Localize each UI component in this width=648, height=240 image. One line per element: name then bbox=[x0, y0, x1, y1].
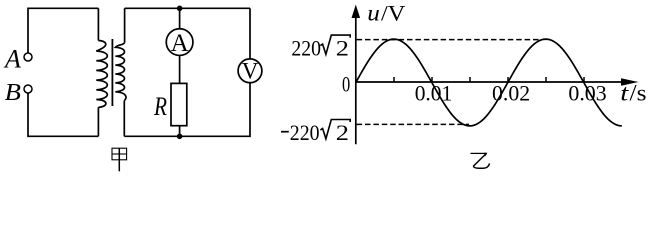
svg-text:V: V bbox=[242, 58, 259, 83]
svg-text:220: 220 bbox=[291, 36, 321, 61]
svg-text:0: 0 bbox=[342, 72, 350, 97]
svg-text:/s: /s bbox=[630, 80, 647, 105]
svg-text:2: 2 bbox=[336, 36, 349, 61]
svg-text:R: R bbox=[153, 91, 167, 121]
svg-text:B: B bbox=[5, 80, 22, 106]
svg-text:220: 220 bbox=[290, 120, 320, 145]
svg-text:0.02: 0.02 bbox=[492, 80, 530, 105]
svg-text:2: 2 bbox=[336, 120, 349, 145]
svg-text:0.01: 0.01 bbox=[415, 80, 453, 105]
svg-text:A: A bbox=[171, 30, 189, 57]
svg-text:t: t bbox=[620, 80, 629, 105]
svg-text:A: A bbox=[3, 45, 21, 74]
svg-text:0.03: 0.03 bbox=[568, 80, 606, 105]
svg-text:u: u bbox=[367, 0, 380, 25]
svg-text:/V: /V bbox=[381, 0, 405, 25]
